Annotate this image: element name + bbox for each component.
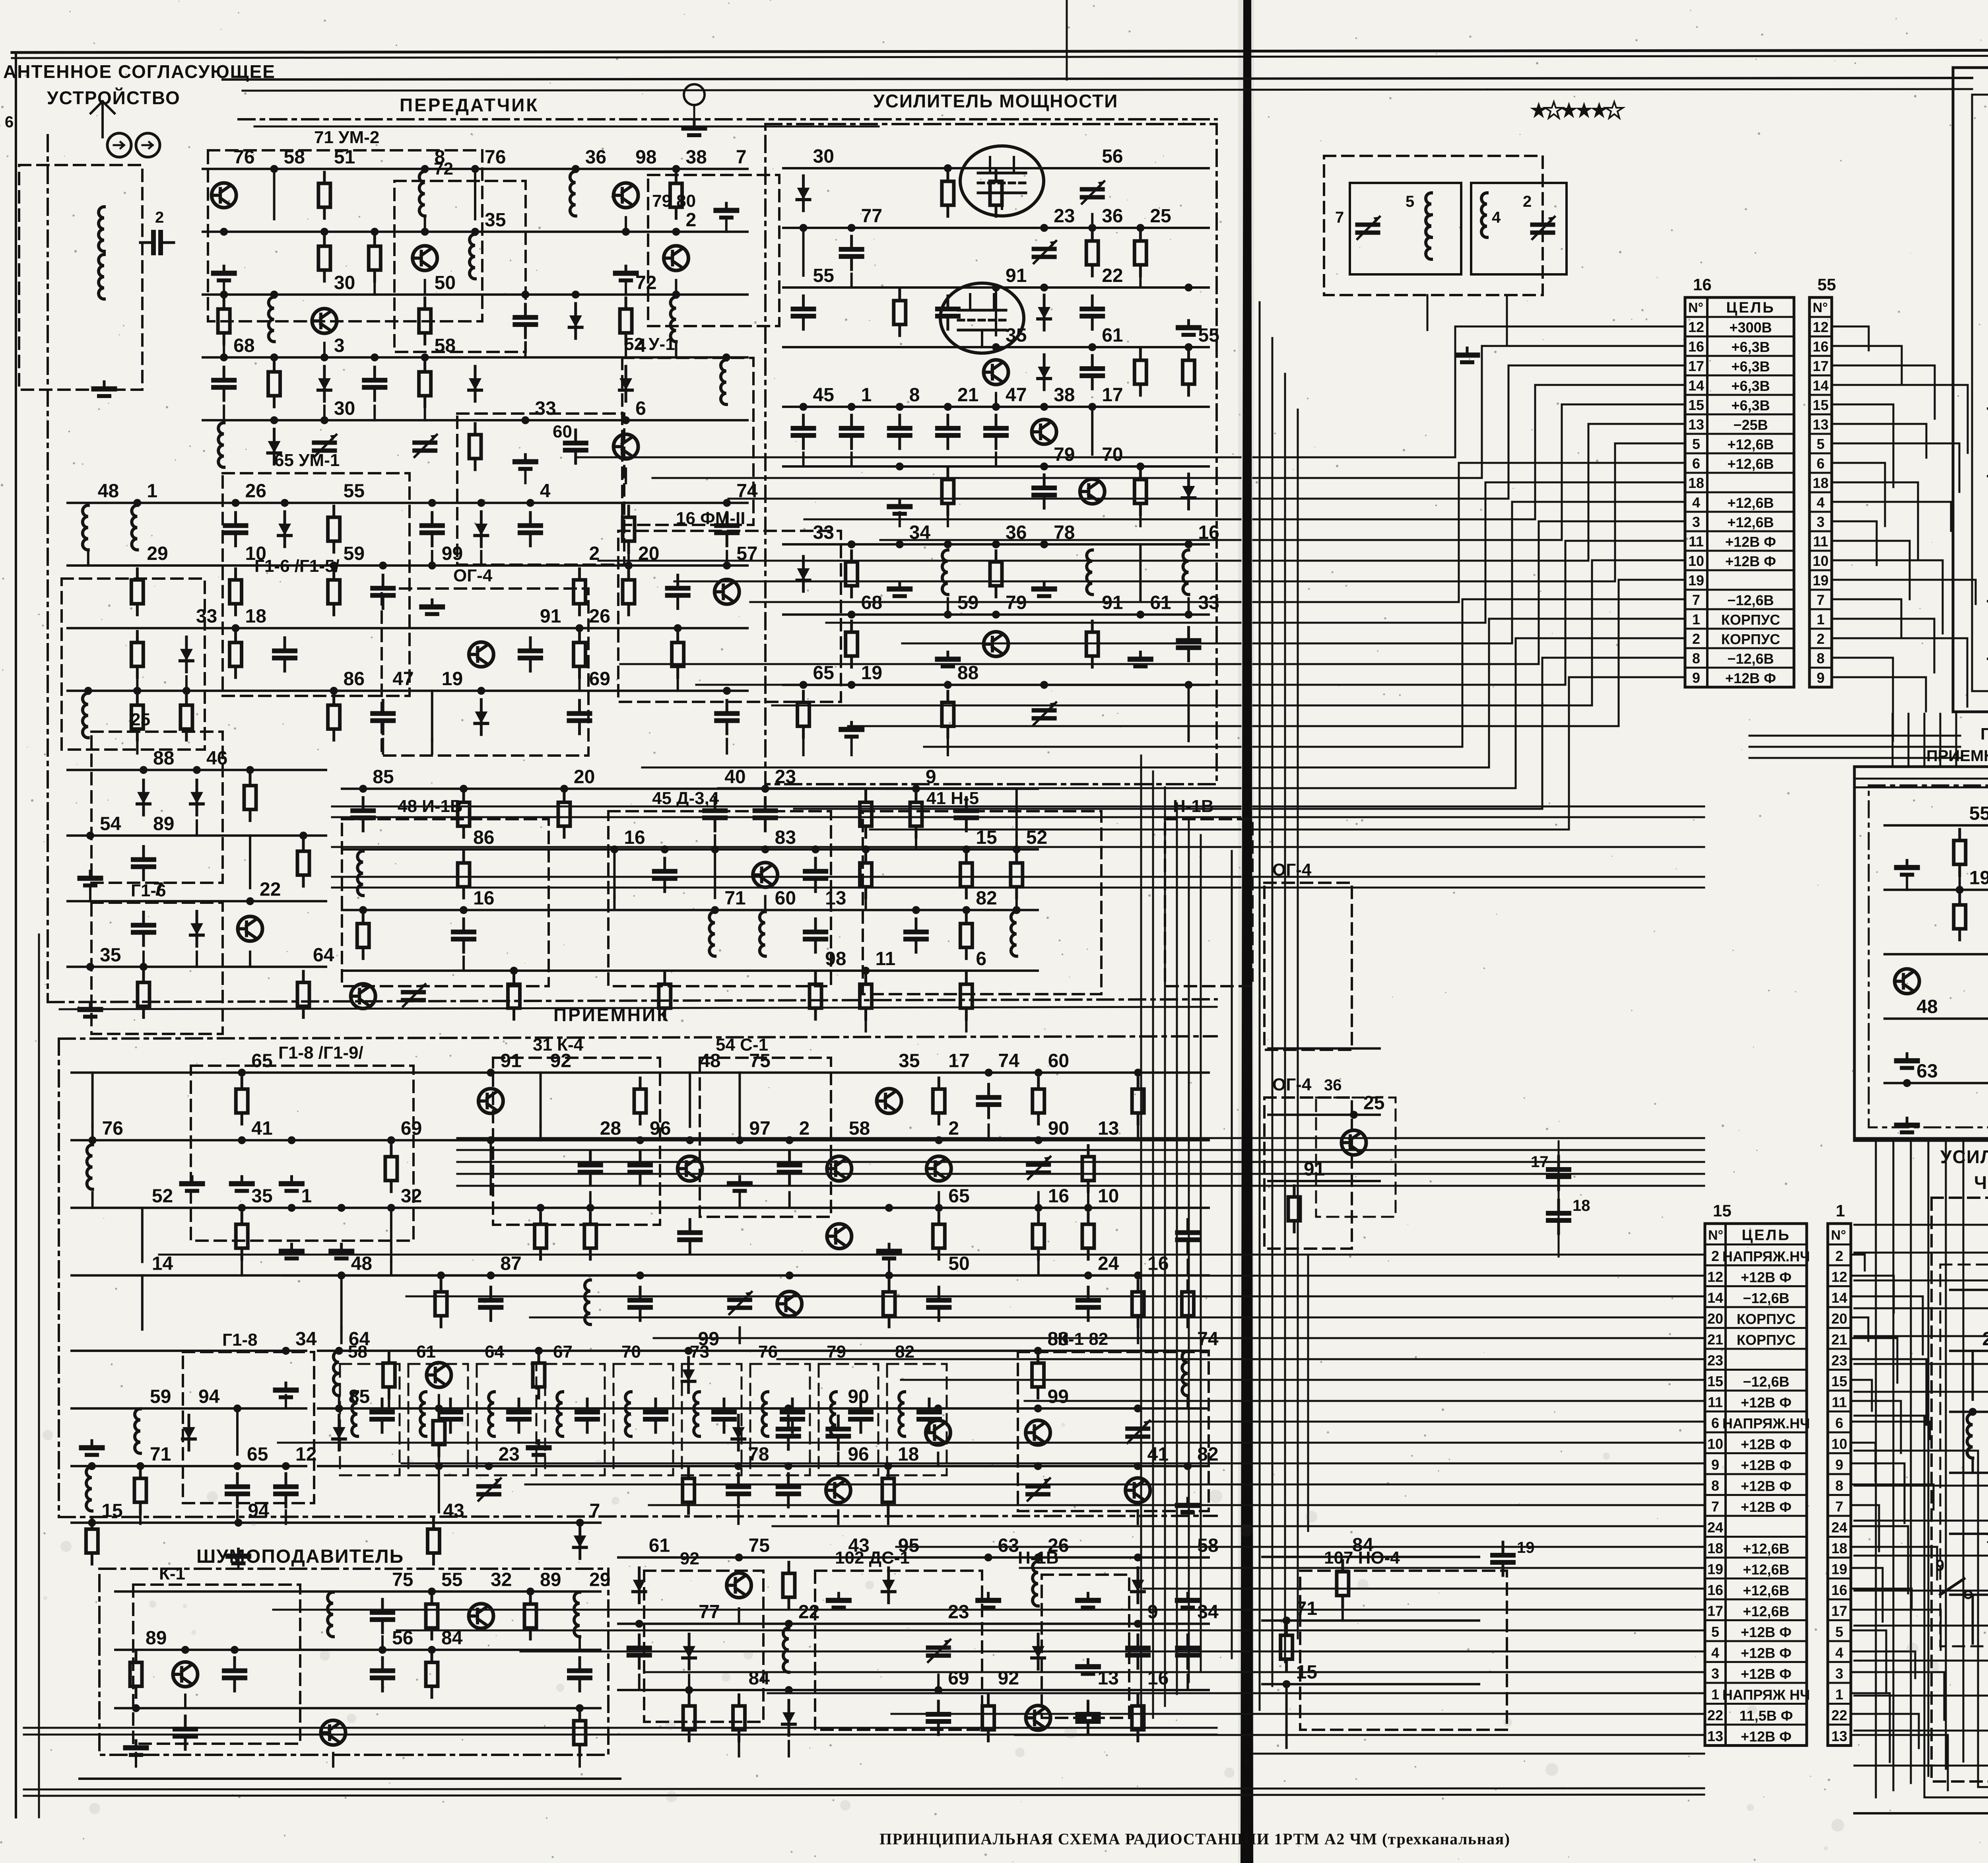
diode <box>619 366 632 401</box>
svg-text:15: 15 <box>1688 397 1704 413</box>
svg-text:63: 63 <box>1916 1061 1938 1082</box>
wire stub <box>388 1395 390 1408</box>
junction <box>786 1271 794 1279</box>
connector 1 pin 17 <box>1828 1599 1851 1601</box>
wire bus <box>1268 1180 1380 1182</box>
junction <box>471 228 479 236</box>
diode <box>469 366 481 401</box>
svg-text:33: 33 <box>535 398 556 419</box>
svg-text:18: 18 <box>1688 475 1704 491</box>
inductor <box>574 1592 580 1637</box>
wire stub <box>579 1636 581 1650</box>
junction <box>379 561 387 569</box>
wire stub <box>625 343 627 357</box>
svg-text:34: 34 <box>295 1329 317 1350</box>
module 71 УМ-2 dashed box <box>208 150 482 321</box>
resistor <box>458 852 470 898</box>
svg-text:72: 72 <box>434 159 453 179</box>
inductor <box>1087 550 1092 594</box>
connector 15 pin 3 +12В Ф <box>1705 1661 1807 1663</box>
junction <box>320 228 328 236</box>
IF filter stage 70 capacitor <box>645 1399 666 1432</box>
capacitor <box>630 1287 650 1321</box>
resistor <box>1954 894 1966 940</box>
capacitor <box>938 296 958 329</box>
capacitor <box>928 1287 949 1321</box>
svg-text:N°: N° <box>1688 300 1703 315</box>
svg-text:КОРПУС: КОРПУС <box>1737 1332 1796 1348</box>
inductor <box>328 1592 333 1637</box>
svg-text:11: 11 <box>1832 1394 1847 1410</box>
svg-text:67: 67 <box>553 1342 573 1362</box>
capacitor <box>353 798 373 831</box>
junction <box>281 499 289 507</box>
junction <box>962 906 970 914</box>
wire bus <box>783 543 1209 546</box>
connector 1 pin 3 <box>1828 1661 1851 1663</box>
junction <box>487 1271 495 1279</box>
junction <box>460 906 468 914</box>
trimmer capacitor <box>729 1292 751 1314</box>
svg-text:25: 25 <box>1150 206 1171 227</box>
capacitor <box>1178 627 1199 661</box>
fold shadow <box>1238 0 1254 1863</box>
junction <box>435 1405 443 1412</box>
inductor <box>721 360 726 404</box>
wire stub <box>802 453 805 467</box>
svg-text:+12,6В: +12,6В <box>1743 1603 1789 1620</box>
junction <box>785 1686 793 1694</box>
svg-text:+12В Ф: +12В Ф <box>1741 1478 1792 1494</box>
resistor <box>469 423 481 470</box>
connector 15 pin 2 НАПРЯЖ.НЧ <box>1705 1243 1807 1245</box>
star symbols row <box>1530 102 1547 118</box>
module Г1-8 dashed box <box>183 1352 314 1503</box>
svg-text:65: 65 <box>251 1050 272 1071</box>
transistor <box>664 246 688 270</box>
svg-text:2: 2 <box>1817 631 1825 647</box>
svg-text:5: 5 <box>1692 436 1700 452</box>
wire stub <box>579 676 581 691</box>
svg-text:40: 40 <box>724 767 745 788</box>
svg-text:52: 52 <box>152 1185 173 1206</box>
module ОГ-4 dashed box <box>1264 883 1352 1050</box>
box squelch dash-dot <box>99 1569 608 1755</box>
capacitor <box>276 1474 296 1507</box>
svg-text:22: 22 <box>260 879 281 900</box>
connector 16 pin 3 +12,6В <box>1685 511 1794 513</box>
transistor <box>1895 969 1919 994</box>
svg-text:Г1-8: Г1-8 <box>222 1330 258 1350</box>
wire bus <box>68 502 747 504</box>
svg-text:3: 3 <box>1817 514 1825 530</box>
svg-text:14: 14 <box>152 1253 173 1274</box>
junction <box>848 681 856 689</box>
capacitor <box>728 1474 749 1507</box>
connector 15 pin 12 +12В Ф <box>1705 1265 1807 1267</box>
wire bus <box>68 564 747 567</box>
svg-text:18: 18 <box>1986 1529 1988 1546</box>
capacitor <box>372 1599 393 1633</box>
svg-text:+12В Ф: +12В Ф <box>1741 1666 1792 1682</box>
wire drop <box>438 1466 440 1512</box>
connector 55 pin 13 <box>1809 414 1832 416</box>
ground <box>80 871 101 886</box>
wire stub <box>381 1636 384 1650</box>
capacitor <box>755 798 776 831</box>
wire stub <box>995 453 997 467</box>
svg-text:13: 13 <box>1097 1668 1118 1689</box>
svg-text:92: 92 <box>680 1549 699 1568</box>
resistor <box>328 694 340 740</box>
svg-text:9: 9 <box>1817 670 1825 686</box>
trimmer capacitor <box>1034 241 1056 263</box>
svg-text:Г1-6: Г1-6 <box>131 881 166 900</box>
svg-text:98: 98 <box>825 948 846 969</box>
connector 16 pin 10 +12В Ф <box>1685 550 1794 552</box>
svg-text:23: 23 <box>1831 1352 1847 1369</box>
transistor <box>312 309 337 333</box>
junction <box>140 963 148 971</box>
junction <box>1084 1204 1092 1212</box>
resistor <box>584 1213 596 1259</box>
resistor <box>574 569 586 615</box>
svg-text:22: 22 <box>1102 265 1123 286</box>
svg-text:23: 23 <box>775 767 796 788</box>
wire stub <box>947 739 949 755</box>
IF filter stage 79 coil <box>831 1392 836 1436</box>
junction <box>761 845 769 853</box>
module Н-1В dashed box <box>1042 1575 1129 1718</box>
module antenna filter dashed box <box>1324 156 1543 295</box>
resistor <box>1288 1186 1300 1232</box>
ground <box>889 499 910 514</box>
svg-text:2: 2 <box>1711 1248 1719 1264</box>
resistor <box>1134 468 1146 515</box>
diode <box>1038 355 1050 390</box>
wire drop <box>141 1275 144 1329</box>
svg-text:18: 18 <box>1707 1540 1723 1556</box>
svg-text:55: 55 <box>441 1569 462 1590</box>
junction <box>270 165 278 173</box>
wire bus <box>68 900 326 902</box>
svg-text:+12В Ф: +12В Ф <box>1741 1499 1792 1515</box>
svg-text:7: 7 <box>1335 209 1344 226</box>
svg-text:5: 5 <box>1835 1624 1843 1640</box>
wire bus <box>1262 1556 1479 1558</box>
svg-text:21: 21 <box>1831 1331 1847 1348</box>
box antenna matching device dashed <box>19 165 142 390</box>
svg-text:70: 70 <box>1102 444 1123 465</box>
diode <box>137 780 150 815</box>
capacitor 17 mid <box>1548 1156 1569 1190</box>
wire bus <box>1885 889 1988 891</box>
capacitor <box>779 1152 800 1185</box>
wire stub <box>988 1125 990 1140</box>
junction <box>1134 1462 1142 1470</box>
wire stub <box>1285 1733 1288 1748</box>
svg-text:К-1: К-1 <box>159 1564 185 1583</box>
capacitor <box>778 1474 799 1507</box>
svg-text:1: 1 <box>1835 1686 1843 1703</box>
svg-text:НАПРЯЖ НЧ: НАПРЯЖ НЧ <box>1722 1687 1810 1703</box>
IF filter stage 61 box <box>408 1364 468 1475</box>
inductor <box>760 912 765 956</box>
ground <box>126 1741 146 1755</box>
capacitor <box>1082 356 1103 389</box>
junction <box>962 845 970 853</box>
ground <box>879 1244 899 1259</box>
junction <box>1034 1554 1042 1562</box>
resistor <box>1182 349 1194 395</box>
svg-text:16: 16 <box>1831 1582 1847 1598</box>
svg-text:15: 15 <box>1713 1201 1732 1220</box>
svg-text:71 УМ-2: 71 УМ-2 <box>314 128 379 147</box>
junction <box>1013 906 1021 914</box>
capacitor <box>629 1635 650 1668</box>
junction <box>477 687 485 695</box>
wire stub <box>837 1511 839 1524</box>
junction <box>576 624 584 632</box>
transistor <box>1026 1420 1050 1445</box>
resistor <box>318 172 330 218</box>
wire stub <box>89 886 91 901</box>
junction <box>220 354 228 361</box>
resistor <box>1032 1352 1044 1398</box>
wire stub <box>480 551 482 565</box>
connector 15 pin 24 <box>1705 1515 1807 1517</box>
junction <box>711 845 719 853</box>
diode <box>797 556 810 591</box>
junction <box>934 1405 942 1412</box>
junction <box>736 1136 744 1144</box>
wire stub <box>995 393 997 407</box>
junction <box>1134 1554 1142 1562</box>
svg-text:ПРИНЦИПИАЛЬНАЯ СХЕМА РАДИОСТ: ПРИНЦИПИАЛЬНАЯ СХЕМА РАДИОСТАНЦИИ 1РТМ А… <box>879 1830 1510 1848</box>
connector 15 pin 23 <box>1705 1348 1807 1350</box>
wire stub <box>1139 274 1142 288</box>
svg-text:24: 24 <box>1831 1519 1847 1536</box>
svg-text:10: 10 <box>1707 1436 1723 1452</box>
wire stub <box>540 1125 542 1140</box>
junction <box>848 224 856 232</box>
resistor <box>960 913 972 959</box>
svg-text:16: 16 <box>624 827 645 848</box>
inductor <box>1033 1562 1038 1606</box>
wire stub <box>937 1453 939 1466</box>
junction <box>1035 1068 1043 1076</box>
svg-text:89: 89 <box>153 813 174 834</box>
svg-text:99: 99 <box>442 543 463 564</box>
wire stub <box>91 1125 94 1140</box>
svg-text:17: 17 <box>1707 1603 1723 1619</box>
svg-text:19: 19 <box>861 662 882 684</box>
svg-text:14: 14 <box>1688 377 1704 394</box>
wire stub <box>888 1260 890 1275</box>
connector 16 pin 4 +12,6В <box>1685 491 1794 493</box>
wire drop <box>1139 544 1142 600</box>
junction <box>944 540 952 548</box>
capacitor <box>841 415 862 449</box>
svg-text:73: 73 <box>690 1342 709 1362</box>
wire stub <box>424 280 426 294</box>
module 36 box mid <box>1316 1098 1396 1217</box>
svg-text:11: 11 <box>1813 533 1828 550</box>
wire stub <box>865 1017 867 1031</box>
wire filter down <box>1427 295 1429 330</box>
svg-text:−12,6В: −12,6В <box>1743 1290 1789 1306</box>
junction <box>320 416 328 424</box>
connector 55 outline <box>1809 297 1832 687</box>
junction <box>848 540 856 548</box>
svg-text:4: 4 <box>1692 494 1700 511</box>
wire drop <box>474 169 476 219</box>
capacitor <box>1177 1635 1198 1668</box>
junction <box>685 1686 693 1694</box>
connector 15 pin 16 +12,6В <box>1705 1577 1807 1579</box>
junction <box>786 1136 794 1144</box>
svg-text:23: 23 <box>1707 1352 1723 1369</box>
junction <box>992 403 1000 411</box>
svg-text:12: 12 <box>1707 1269 1723 1285</box>
diode <box>1032 1634 1044 1669</box>
junction <box>181 1646 189 1654</box>
junction <box>636 1136 644 1144</box>
svg-text:2: 2 <box>948 1118 959 1139</box>
svg-text:36: 36 <box>1102 206 1123 227</box>
svg-text:79: 79 <box>1054 444 1075 465</box>
connector 1 pin 7 <box>1828 1494 1851 1496</box>
capacitor <box>938 415 958 449</box>
module 25 dashed box <box>91 732 223 883</box>
wire bus <box>203 168 747 170</box>
svg-text:25: 25 <box>131 710 150 729</box>
svg-text:52 У-1: 52 У-1 <box>624 334 675 354</box>
wire stub <box>185 676 188 691</box>
junction <box>723 499 731 507</box>
ground <box>729 1177 750 1191</box>
trimmer capacitor <box>1028 1157 1050 1179</box>
transistor <box>427 1363 451 1387</box>
wire stub <box>675 280 677 294</box>
junction <box>460 785 468 793</box>
connector 15 pin 18 +12,6В <box>1705 1536 1807 1538</box>
svg-text:54 С-1: 54 С-1 <box>716 1035 768 1055</box>
junction <box>535 1347 543 1355</box>
svg-text:91: 91 <box>1006 265 1027 286</box>
wire stub <box>764 896 767 910</box>
inductor <box>132 505 137 550</box>
capacitor 19 mid lower <box>1493 1542 1513 1575</box>
ground <box>231 1177 252 1191</box>
junction <box>572 291 580 299</box>
junction <box>735 1554 743 1562</box>
svg-text:25: 25 <box>1363 1092 1384 1113</box>
resistor <box>558 791 570 837</box>
svg-text:28: 28 <box>600 1118 621 1139</box>
diode <box>882 1568 895 1603</box>
inductor <box>585 1280 590 1325</box>
junction <box>220 228 228 236</box>
wire bus <box>318 1407 1209 1410</box>
trimmer capacitor <box>928 1640 950 1662</box>
junction <box>232 499 240 507</box>
junction <box>636 1271 644 1279</box>
junction <box>661 845 669 853</box>
wire bus <box>783 614 1209 616</box>
svg-text:71: 71 <box>724 888 745 909</box>
connector 1 pin 11 <box>1828 1390 1851 1392</box>
resistor <box>1086 230 1098 276</box>
transistor <box>351 984 375 1008</box>
transistor <box>1126 1478 1150 1503</box>
resistor <box>230 631 242 678</box>
svg-text:22: 22 <box>1707 1707 1723 1723</box>
svg-text:+12,6В: +12,6В <box>1727 456 1774 472</box>
capacitor <box>716 700 737 734</box>
wire stub <box>462 957 465 971</box>
capacitor <box>1128 1635 1148 1668</box>
svg-text:КОРПУС: КОРПУС <box>1721 612 1780 628</box>
wire stub <box>738 1125 741 1140</box>
connector 16 pin 5 +12,6В <box>1685 433 1794 435</box>
junction <box>622 228 630 236</box>
svg-text:32: 32 <box>491 1569 512 1590</box>
svg-text:1: 1 <box>1692 611 1700 627</box>
wire stub <box>424 217 426 231</box>
wire bus <box>115 1649 600 1651</box>
wire stub <box>332 1753 334 1767</box>
connector 1 pin 14 <box>1828 1285 1851 1287</box>
junction <box>246 897 254 905</box>
svg-text:9: 9 <box>1936 1557 1944 1574</box>
wire bus <box>783 227 1209 229</box>
connector 1 pin 10 <box>1828 1432 1851 1434</box>
wire bus <box>1262 1619 1479 1622</box>
IF filter stage 82 coil <box>899 1392 905 1436</box>
svg-text:+12,6В: +12,6В <box>1727 495 1774 511</box>
wire stub <box>249 952 251 967</box>
resistor <box>882 1467 894 1513</box>
wires out of connector 1 strip <box>1851 1255 1865 1270</box>
svg-text:33: 33 <box>813 522 834 543</box>
diode <box>574 1523 586 1558</box>
box receiver left edge <box>58 1039 60 1517</box>
wire stub <box>431 739 433 753</box>
capacitor <box>654 858 675 892</box>
wire drop <box>249 835 251 888</box>
svg-text:33: 33 <box>196 606 217 627</box>
connector 55 pin 1 <box>1809 608 1832 610</box>
capacitor <box>515 304 536 338</box>
svg-text:15: 15 <box>101 1500 122 1521</box>
svg-text:+12,6В: +12,6В <box>1743 1541 1789 1557</box>
resistor <box>960 852 972 898</box>
junction <box>1134 1271 1142 1279</box>
resistor <box>1134 230 1146 276</box>
wire stub <box>135 1753 137 1767</box>
junction <box>238 1136 246 1144</box>
svg-text:+6,3В: +6,3В <box>1731 339 1770 355</box>
wire drop <box>340 1275 343 1329</box>
wire bus <box>1950 1350 1988 1352</box>
connector 55 pin 5 <box>1809 433 1832 435</box>
trimmer capacitor <box>1128 1421 1150 1443</box>
IF filter stage 76 box <box>750 1364 810 1475</box>
wire bus <box>72 1274 1209 1276</box>
resistor <box>138 971 149 1018</box>
wire drop <box>1972 1351 1974 1400</box>
